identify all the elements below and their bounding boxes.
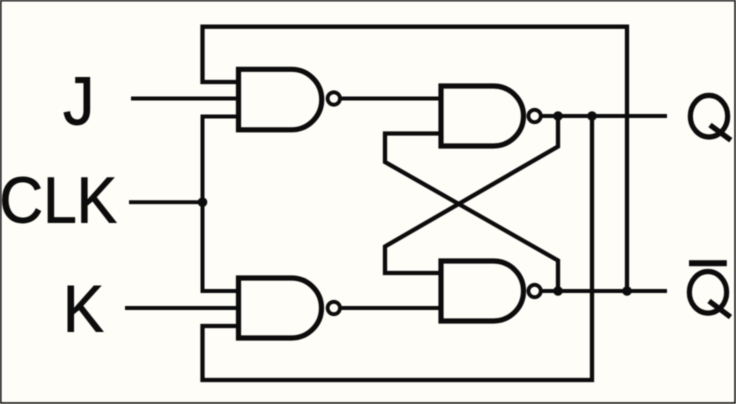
nand gate U1 bubble xyxy=(328,92,340,104)
label Q-bar : overbar xyxy=(689,260,727,266)
wire top feedback rail from Q-bar to U1 top input xyxy=(203,27,628,291)
junction dot Q node at cross-couple xyxy=(553,111,563,121)
wire Q-bar output xyxy=(542,289,667,293)
nand gate U2 bubble xyxy=(328,302,340,314)
svg-text:K: K xyxy=(63,271,104,346)
label Q-bar : ring xyxy=(689,272,726,314)
nand gate U4 body xyxy=(441,261,524,321)
nand gate U3 bubble xyxy=(528,110,540,122)
junction dot Q-bar node at top-rail feedback xyxy=(622,286,632,296)
wire cross-couple Q-bar node to U3 bottom input xyxy=(385,134,558,292)
junction dot Q node at bottom-rail feedback xyxy=(587,111,597,121)
label Q-bar : tail xyxy=(709,301,731,317)
wire U1 output to U3 top input xyxy=(341,97,441,101)
junction dot Q-bar node at cross-couple xyxy=(553,286,563,296)
wire K input xyxy=(125,306,239,310)
nand gate U1 body xyxy=(239,69,322,130)
wire U2 output to U4 bottom input xyxy=(341,306,441,310)
nand gate U4 bubble xyxy=(528,285,540,297)
wire CLK input xyxy=(129,200,203,204)
wire CLK vertical U1 bottom input to U2 top input xyxy=(203,117,239,292)
label Q : ring xyxy=(690,95,727,137)
nand gate U3 body xyxy=(441,86,524,146)
label Q : tail xyxy=(710,125,731,140)
svg-text:J: J xyxy=(63,63,94,139)
wire Q output xyxy=(542,114,667,118)
nand gate U2 body xyxy=(239,278,322,338)
junction dot CLK node xyxy=(198,197,208,207)
wire bottom feedback rail from Q to U2 bottom input xyxy=(203,116,593,380)
wire cross-couple Q node to U4 top input xyxy=(385,116,558,273)
wire J input xyxy=(131,97,239,101)
svg-text:CLK: CLK xyxy=(0,165,117,237)
